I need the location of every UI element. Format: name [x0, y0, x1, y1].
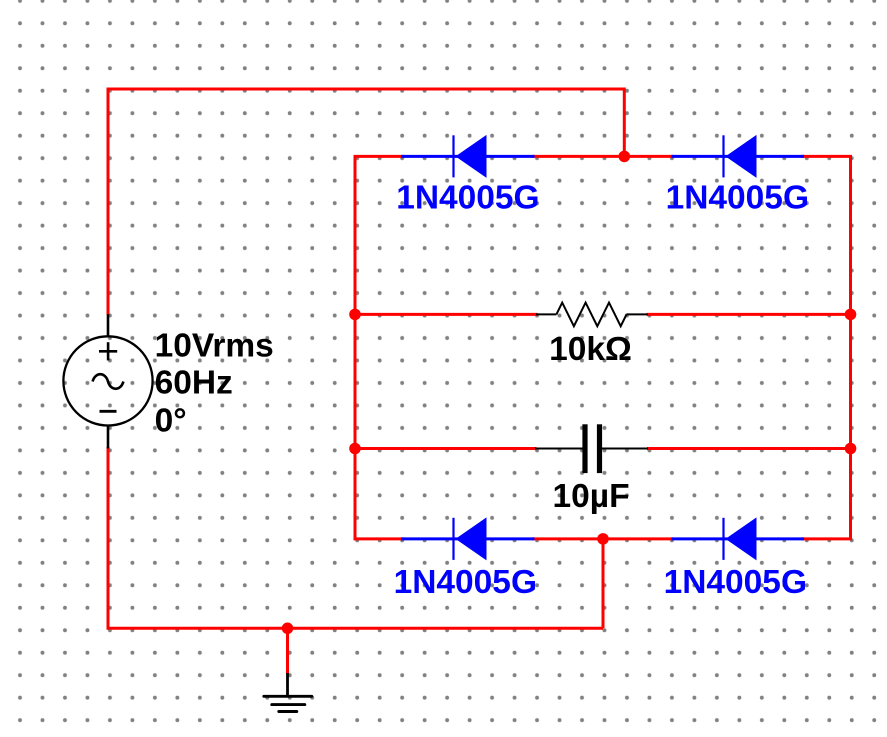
wire resistor row	[354, 313, 538, 316]
wire capacitor row	[354, 447, 537, 450]
node junction ground tap (287.5,628)	[282, 623, 294, 635]
svg-text:1N4005G: 1N4005G	[664, 564, 807, 601]
svg-text:10Vrms: 10Vrms	[155, 327, 274, 364]
svg-text:10µF: 10µF	[553, 478, 630, 515]
diode D4 bottom-right	[672, 517, 805, 560]
node junction left rail / resistor row	[349, 309, 361, 321]
capacitor C1	[535, 424, 648, 473]
node junction bottom diode row (603,539)	[597, 533, 609, 545]
wire right rail of bridge	[849, 156, 852, 539]
diode D1 top-left	[401, 135, 535, 178]
node junction top-right (624,156)	[619, 151, 631, 163]
node junction right rail / capacitor row	[845, 443, 857, 455]
svg-text:0°: 0°	[155, 403, 187, 440]
wire left rail of bridge	[354, 156, 357, 539]
wire ground stub (red part)	[286, 628, 289, 674]
wire drop from bottom diode row junction to bottom rail	[602, 539, 605, 628]
wire top loop from source top to top-right drop	[108, 89, 624, 315]
AC source V1	[63, 314, 152, 448]
diode D3 bottom-left	[401, 517, 535, 560]
svg-text:1N4005G: 1N4005G	[394, 564, 537, 601]
svg-text:10kΩ: 10kΩ	[549, 331, 632, 368]
svg-text:1N4005G: 1N4005G	[666, 180, 809, 217]
wire bottom rail	[108, 447, 603, 628]
svg-text:1N4005G: 1N4005G	[396, 180, 539, 217]
svg-text:60Hz: 60Hz	[155, 365, 233, 402]
wire bottom diode row	[354, 537, 405, 540]
ground	[264, 673, 312, 712]
resistor R1	[536, 303, 648, 327]
node junction left rail / capacitor row	[349, 443, 361, 455]
diode D2 top-right	[672, 135, 805, 178]
wire top diode row	[354, 155, 405, 158]
node junction right rail / resistor row	[845, 309, 857, 321]
